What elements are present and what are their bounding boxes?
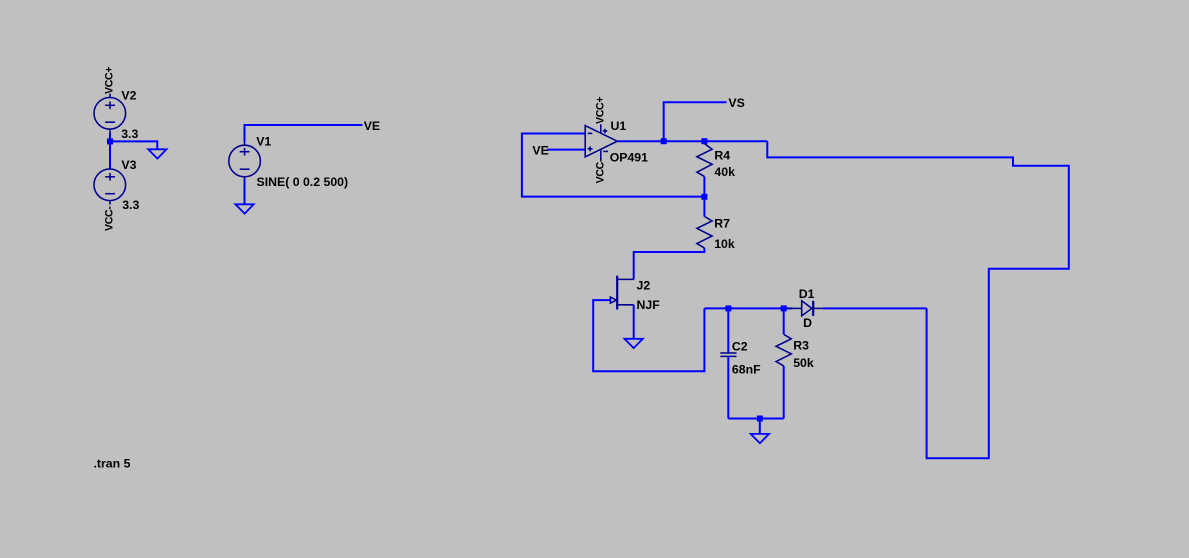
wire V1 top to VE: [245, 125, 363, 142]
capacitor C2: [727, 308, 729, 352]
junction C2 tap: [725, 305, 731, 311]
svg-text:40k: 40k: [714, 165, 735, 179]
wire J2 gate net: [593, 300, 704, 371]
wire bottom node: [728, 418, 783, 420]
ground: [751, 434, 769, 443]
svg-text:VCC-: VCC-: [595, 158, 607, 183]
junction VS tap: [661, 138, 667, 144]
svg-text:V3: V3: [121, 158, 136, 172]
svg-text:3.3: 3.3: [122, 198, 139, 212]
resistor R7: [697, 217, 712, 249]
svg-text:VCC+: VCC+: [104, 67, 116, 94]
junction feedback node: [701, 194, 707, 200]
wire to ground: [759, 419, 761, 434]
transistor J2 (NJF): [610, 276, 633, 310]
wire feedback: [522, 134, 705, 197]
junction ground tap: [757, 416, 763, 422]
svg-text:VCC-: VCC-: [104, 206, 116, 231]
junction R3 tap: [781, 305, 787, 311]
wire V1 bottom: [244, 179, 246, 204]
wire node to diode: [704, 307, 792, 309]
junction node: [107, 138, 113, 144]
svg-text:R3: R3: [793, 339, 809, 353]
resistor R4: [697, 144, 712, 177]
voltage source V1: [229, 142, 261, 181]
wire R7 to J2 drain: [634, 248, 705, 279]
wire C2 bottom: [727, 356, 729, 418]
svg-text:3.3: 3.3: [121, 127, 138, 141]
svg-text:C2: C2: [732, 339, 748, 353]
wire R7 top lead: [703, 197, 705, 217]
wire V2 to V3: [109, 133, 111, 169]
wire R4 bottom: [703, 177, 705, 197]
svg-text:SINE( 0 0.2 500): SINE( 0 0.2 500): [257, 175, 349, 189]
wire VE to op-amp: [547, 149, 585, 151]
svg-text:10k: 10k: [714, 237, 735, 251]
svg-text:VCC+: VCC+: [595, 97, 607, 124]
svg-text:V2: V2: [121, 89, 136, 103]
ground: [235, 204, 253, 213]
svg-text:OP491: OP491: [610, 151, 648, 165]
svg-text:J2: J2: [637, 278, 651, 292]
svg-text:R4: R4: [714, 148, 730, 162]
svg-text:U1: U1: [611, 119, 627, 133]
svg-text:VE: VE: [532, 143, 548, 157]
wire to VS: [664, 102, 727, 141]
svg-text:D1: D1: [799, 287, 815, 301]
svg-text:VE: VE: [364, 119, 380, 133]
op-amp U1: [585, 124, 617, 160]
wire to ground: [110, 141, 157, 149]
svg-text:VS: VS: [728, 96, 744, 110]
svg-text:.tran 5: .tran 5: [94, 456, 131, 470]
wire diode output: [823, 307, 927, 309]
ground: [625, 339, 643, 348]
svg-text:D: D: [803, 316, 812, 330]
junction R4 top: [701, 138, 707, 144]
svg-text:NJF: NJF: [637, 298, 661, 312]
svg-text:V1: V1: [256, 135, 271, 149]
wire J2 source to ground: [633, 305, 635, 339]
voltage source V3: [94, 169, 126, 205]
voltage source V2: [94, 94, 126, 134]
wire output loop: [767, 141, 1069, 458]
wire R3 bottom: [783, 366, 785, 419]
resistor R3: [783, 308, 785, 334]
svg-text:50k: 50k: [793, 356, 814, 370]
svg-text:R7: R7: [714, 217, 730, 231]
ground: [148, 149, 166, 158]
diode D1: [787, 301, 823, 316]
wire op-amp output: [617, 140, 767, 142]
svg-text:68nF: 68nF: [732, 362, 761, 376]
